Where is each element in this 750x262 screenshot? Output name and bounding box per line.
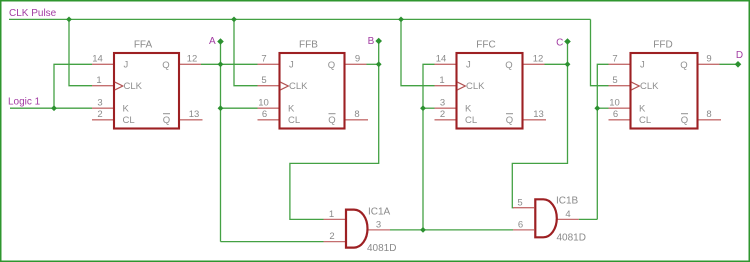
svg-text:CL: CL <box>639 115 651 126</box>
svg-text:9: 9 <box>706 54 711 65</box>
pin FFB QB 8 <box>346 119 369 121</box>
svg-text:Q: Q <box>328 60 335 71</box>
pin FFC QB 13 <box>524 119 547 121</box>
svg-text:5: 5 <box>517 197 522 208</box>
pin FFD J 7 <box>609 63 631 65</box>
FFD clock triangle <box>631 82 639 90</box>
svg-text:12: 12 <box>533 54 544 65</box>
wire IC1B output to FFD K <box>597 107 608 109</box>
junction A-Q <box>218 61 224 67</box>
svg-text:CLK: CLK <box>124 81 143 92</box>
svg-text:Q: Q <box>506 115 513 126</box>
pin stubs FFA <box>92 64 203 120</box>
junction IC1A out <box>420 227 426 233</box>
flip-flop FFD box <box>631 53 698 129</box>
svg-text:5: 5 <box>261 75 266 86</box>
svg-text:9: 9 <box>355 54 360 65</box>
svg-text:8: 8 <box>354 109 359 120</box>
wire IC1A output vertical up to FFC <box>423 64 435 230</box>
svg-text:CL: CL <box>288 115 300 126</box>
pin IC1A 2 <box>324 241 346 243</box>
wire node A vertical <box>220 42 222 242</box>
AND gate IC1B <box>535 199 557 237</box>
svg-text:K: K <box>639 104 646 115</box>
pin FFB K 10 <box>258 107 280 109</box>
pin FFC J 14 <box>435 63 457 65</box>
svg-text:Q: Q <box>681 115 688 126</box>
wire Logic1 to FFA J <box>54 64 92 108</box>
svg-text:3: 3 <box>97 98 102 109</box>
pin FFA K 3 <box>92 107 114 109</box>
svg-text:10: 10 <box>609 98 620 109</box>
pin FFA QB 13 <box>180 119 203 121</box>
pin FFA Q 12 <box>179 63 201 65</box>
svg-text:4: 4 <box>565 209 570 220</box>
pin stubs FFB <box>258 64 369 120</box>
svg-text:FFB: FFB <box>299 40 318 51</box>
svg-text:1: 1 <box>329 209 334 220</box>
svg-text:13: 13 <box>533 109 544 120</box>
flip-flop FFB box <box>280 53 345 129</box>
svg-text:2: 2 <box>440 109 445 120</box>
svg-text:12: 12 <box>187 54 198 65</box>
svg-text:IC1A: IC1A <box>368 207 391 218</box>
svg-text:J: J <box>640 60 645 71</box>
node A terminal <box>217 38 224 45</box>
wire Logic1 horizontal <box>10 107 92 109</box>
pin IC1A out 3 <box>368 229 390 231</box>
node C terminal <box>564 38 571 45</box>
pin FFB J 7 <box>258 63 280 65</box>
svg-text:FFC: FFC <box>476 40 495 51</box>
pin stubs IC1B <box>513 208 579 230</box>
svg-text:FFA: FFA <box>134 40 153 51</box>
flip-flop FFA box <box>114 53 179 129</box>
svg-text:CLK: CLK <box>466 81 485 92</box>
junction C <box>565 61 571 67</box>
pin stubs IC1A <box>324 219 391 241</box>
wire node A to FFB K <box>221 107 258 109</box>
pin FFC CL 2 <box>435 119 457 121</box>
flip-flop FFC box <box>457 53 523 129</box>
junction A-K <box>218 105 224 111</box>
pin FFD Q 9 <box>698 63 720 65</box>
wire CLK to FFA CLK <box>69 19 92 85</box>
pin stubs FFD <box>609 64 722 120</box>
svg-text:Q: Q <box>162 60 169 71</box>
svg-text:Q: Q <box>163 115 170 126</box>
svg-text:Q: Q <box>680 60 687 71</box>
svg-text:A: A <box>209 36 216 47</box>
pin FFD K 10 <box>609 107 631 109</box>
wire CLK to FFC CLK <box>401 19 435 85</box>
svg-text:14: 14 <box>436 54 447 65</box>
svg-text:K: K <box>465 104 472 115</box>
wire node B vertical and route to IC1A pin1 <box>290 41 379 219</box>
svg-text:7: 7 <box>261 54 266 65</box>
svg-text:CL: CL <box>123 115 135 126</box>
wire CLK to FFD CLK <box>591 19 609 85</box>
svg-text:D: D <box>736 50 743 61</box>
pin FFA CLK 1 <box>92 85 114 87</box>
wire IC1B output to vertical <box>579 218 598 220</box>
pin FFC CLK 1 <box>435 85 457 87</box>
svg-text:3: 3 <box>376 220 381 231</box>
wire IC1A output horizontal to IC1B pin6 <box>390 229 513 231</box>
wire node C vertical and route to IC1B pin5 <box>512 42 567 208</box>
wire node D from FFD Q <box>720 63 738 65</box>
svg-text:14: 14 <box>92 54 103 65</box>
svg-text:FFD: FFD <box>653 40 672 51</box>
svg-text:J: J <box>124 60 129 71</box>
wire IC1A output to FFC K <box>423 107 435 109</box>
pin FFB Q 9 <box>345 63 367 65</box>
wire node C: FFC Q stub to junction <box>545 63 568 65</box>
pin IC1B 6 <box>513 229 534 231</box>
svg-text:J: J <box>289 60 294 71</box>
node D terminal <box>735 61 742 68</box>
svg-text:13: 13 <box>189 109 200 120</box>
FFA clock triangle <box>115 82 123 90</box>
wire CLK to FFB CLK <box>234 19 258 85</box>
wire node B: FFB Q stub to junction <box>367 63 379 65</box>
svg-text:CL: CL <box>465 115 477 126</box>
pin FFD QB 8 <box>699 119 722 121</box>
wire node A: FFA Q to FFB J <box>201 63 258 65</box>
svg-text:Q: Q <box>505 60 512 71</box>
svg-text:K: K <box>123 104 130 115</box>
svg-text:8: 8 <box>706 109 711 120</box>
svg-text:IC1B: IC1B <box>556 196 579 207</box>
svg-text:3: 3 <box>440 98 445 109</box>
pin IC1A 1 <box>324 218 346 220</box>
svg-text:CLK Pulse: CLK Pulse <box>9 8 57 19</box>
svg-text:2: 2 <box>329 231 334 242</box>
svg-text:5: 5 <box>612 75 617 86</box>
svg-text:J: J <box>466 60 471 71</box>
AND gate IC1A <box>346 210 368 248</box>
svg-text:CLK: CLK <box>640 81 659 92</box>
svg-text:K: K <box>288 104 295 115</box>
pin FFB CLK 5 <box>258 85 280 87</box>
pin FFD CL 6 <box>609 119 631 121</box>
node B terminal <box>375 38 382 45</box>
FFC clock triangle <box>457 82 465 90</box>
svg-text:1: 1 <box>96 75 101 86</box>
wire node A to IC1A pin2 <box>221 241 324 243</box>
svg-text:CLK: CLK <box>289 81 308 92</box>
svg-text:6: 6 <box>613 109 618 120</box>
svg-text:4081D: 4081D <box>367 243 396 254</box>
svg-text:4081D: 4081D <box>557 233 586 244</box>
svg-text:10: 10 <box>258 98 269 109</box>
junction IC1B-FFD K <box>594 105 600 111</box>
junction CLK-FFC <box>398 17 404 23</box>
pin FFC K 3 <box>435 107 457 109</box>
pin IC1B 5 <box>513 207 534 209</box>
svg-text:1: 1 <box>439 75 444 86</box>
svg-text:Q: Q <box>328 115 335 126</box>
junction CLK-FFB <box>231 17 237 23</box>
wire IC1B output vertical up to FFD J <box>597 64 608 219</box>
svg-text:6: 6 <box>518 220 523 231</box>
pin FFD CLK 5 <box>609 85 631 87</box>
pin IC1B out 4 <box>557 218 579 220</box>
svg-text:Logic 1: Logic 1 <box>8 96 41 107</box>
pin FFA J 14 <box>92 63 114 65</box>
svg-text:2: 2 <box>97 109 102 120</box>
junction B <box>376 61 382 67</box>
svg-text:6: 6 <box>262 109 267 120</box>
wire CLK net top horizontal <box>9 18 591 20</box>
svg-text:B: B <box>368 36 375 47</box>
junction CLK-FFA <box>66 17 72 23</box>
junction IC1A-FFC K <box>420 105 426 111</box>
pin FFC Q 12 <box>523 63 545 65</box>
svg-text:C: C <box>556 38 563 49</box>
pin stubs FFC <box>435 64 547 120</box>
FFB clock triangle <box>280 82 288 90</box>
pin FFB CL 6 <box>258 119 280 121</box>
pin FFA CL 2 <box>92 119 114 121</box>
junction Logic1 <box>51 105 57 111</box>
svg-text:7: 7 <box>612 54 617 65</box>
